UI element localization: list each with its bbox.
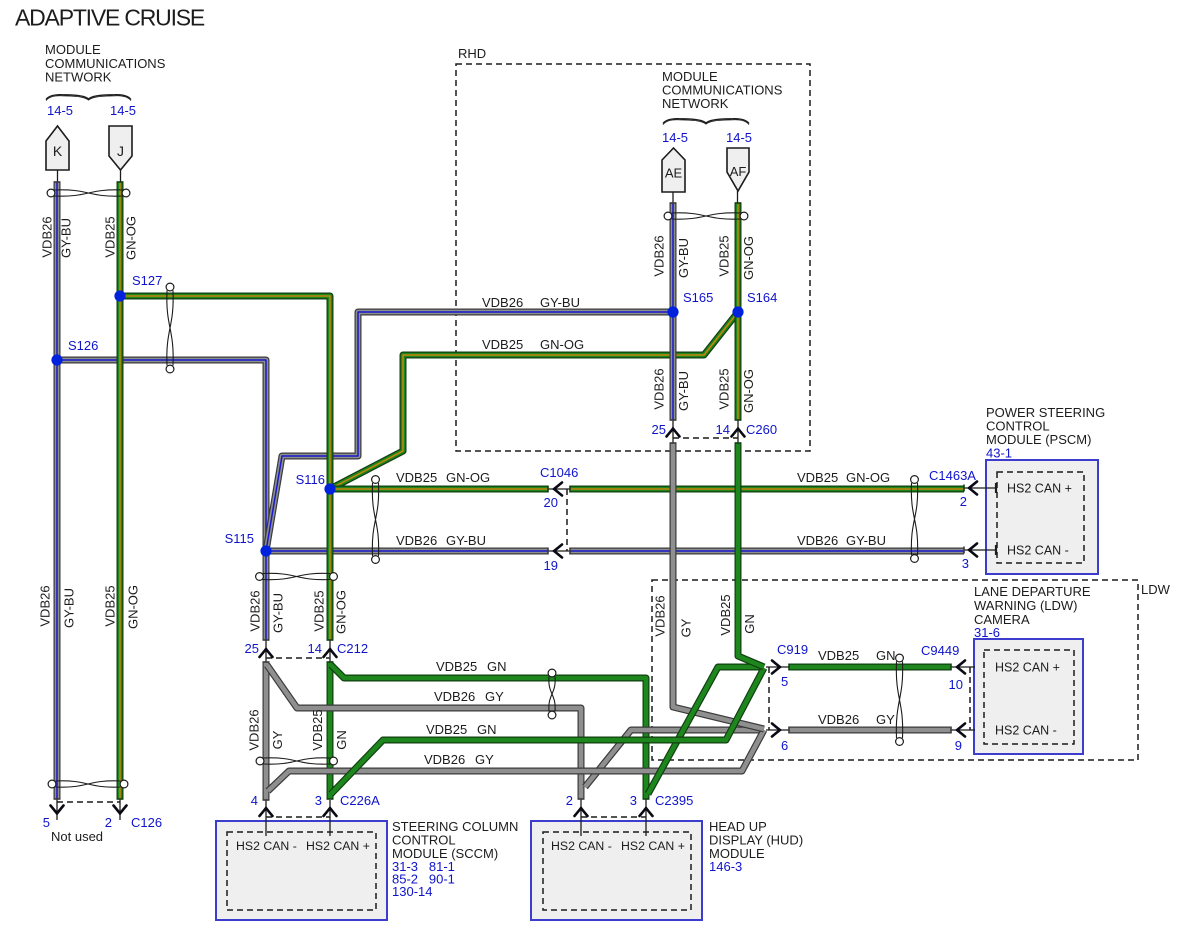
svg-text:GN: GN	[487, 659, 507, 674]
svg-text:HS2 CAN +: HS2 CAN +	[995, 661, 1060, 675]
svg-text:VDB25: VDB25	[482, 337, 523, 352]
svg-text:VDB25: VDB25	[797, 470, 838, 485]
svg-text:VDB25: VDB25	[396, 470, 437, 485]
svg-text:C1046: C1046	[540, 465, 578, 480]
svg-text:WARNING (LDW): WARNING (LDW)	[974, 598, 1078, 613]
svg-text:GN-OG: GN-OG	[540, 337, 584, 352]
svg-text:LANE DEPARTURE: LANE DEPARTURE	[974, 584, 1091, 599]
svg-text:K: K	[53, 143, 63, 159]
svg-text:VDB25: VDB25	[718, 594, 733, 635]
svg-text:GN-OG: GN-OG	[846, 470, 890, 485]
svg-text:AE: AE	[665, 166, 683, 181]
svg-text:VDB25: VDB25	[717, 235, 732, 276]
svg-text:HS2 CAN +: HS2 CAN +	[306, 839, 370, 853]
svg-text:VDB26: VDB26	[434, 689, 475, 704]
svg-text:VDB26: VDB26	[652, 235, 667, 276]
svg-text:GN: GN	[742, 614, 757, 634]
svg-text:HS2 CAN -: HS2 CAN -	[551, 839, 612, 853]
svg-text:10: 10	[949, 677, 963, 692]
svg-text:VDB26: VDB26	[482, 295, 523, 310]
svg-text:146-3: 146-3	[709, 859, 742, 874]
svg-text:2: 2	[566, 793, 573, 808]
svg-text:VDB25: VDB25	[310, 709, 325, 750]
svg-text:VDB25: VDB25	[103, 585, 118, 626]
svg-text:GN-OG: GN-OG	[126, 585, 141, 629]
svg-text:GN: GN	[334, 730, 349, 750]
svg-text:GY: GY	[475, 752, 494, 767]
svg-text:14-5: 14-5	[662, 130, 688, 145]
svg-text:S165: S165	[683, 290, 713, 305]
svg-text:14-5: 14-5	[726, 130, 752, 145]
svg-text:GN: GN	[477, 722, 497, 737]
svg-text:VDB26: VDB26	[247, 709, 262, 750]
svg-text:GY-BU: GY-BU	[846, 533, 886, 548]
svg-text:14: 14	[308, 641, 322, 656]
svg-text:HS2 CAN -: HS2 CAN -	[236, 839, 297, 853]
svg-text:VDB26: VDB26	[653, 595, 668, 636]
svg-text:GY-BU: GY-BU	[676, 238, 691, 278]
svg-text:C212: C212	[337, 641, 368, 656]
svg-text:ADAPTIVE CRUISE: ADAPTIVE CRUISE	[15, 5, 205, 31]
svg-text:S116: S116	[296, 472, 325, 487]
svg-text:RHD: RHD	[458, 46, 486, 61]
svg-text:GY: GY	[270, 730, 285, 749]
svg-text:2: 2	[960, 494, 967, 509]
svg-text:HS2 CAN +: HS2 CAN +	[1007, 482, 1072, 496]
svg-text:VDB26: VDB26	[652, 368, 667, 409]
svg-text:14: 14	[716, 422, 730, 437]
svg-text:25: 25	[245, 641, 259, 656]
svg-text:HS2 CAN -: HS2 CAN -	[995, 724, 1057, 738]
svg-text:C2395: C2395	[655, 793, 693, 808]
svg-text:2: 2	[105, 815, 112, 830]
svg-text:14-5: 14-5	[47, 103, 73, 118]
svg-text:5: 5	[781, 674, 788, 689]
svg-text:S115: S115	[225, 531, 254, 546]
svg-text:GN-OG: GN-OG	[334, 590, 349, 634]
svg-text:25: 25	[652, 422, 666, 437]
svg-text:VDB25: VDB25	[426, 722, 467, 737]
svg-text:VDB26: VDB26	[797, 533, 838, 548]
svg-text:HS2 CAN -: HS2 CAN -	[1007, 544, 1069, 558]
svg-text:GY: GY	[485, 689, 504, 704]
svg-text:GY-BU: GY-BU	[540, 295, 580, 310]
svg-text:GY-BU: GY-BU	[676, 371, 691, 411]
svg-text:20: 20	[544, 495, 558, 510]
svg-text:VDB26: VDB26	[424, 752, 465, 767]
svg-text:6: 6	[781, 738, 788, 753]
svg-text:VDB26: VDB26	[818, 712, 859, 727]
svg-text:GN-OG: GN-OG	[741, 236, 756, 280]
svg-text:S126: S126	[68, 338, 98, 353]
svg-text:31-6: 31-6	[974, 625, 1000, 640]
svg-text:VDB25: VDB25	[717, 368, 732, 409]
svg-text:VDB25: VDB25	[818, 648, 859, 663]
svg-text:S164: S164	[747, 290, 777, 305]
svg-text:LDW: LDW	[1141, 582, 1171, 597]
svg-text:GN: GN	[876, 648, 896, 663]
svg-text:3: 3	[962, 556, 969, 571]
svg-text:GY: GY	[679, 618, 694, 637]
svg-text:19: 19	[544, 558, 558, 573]
svg-text:NETWORK: NETWORK	[45, 70, 112, 85]
svg-text:C126: C126	[131, 815, 162, 830]
svg-text:43-1: 43-1	[986, 446, 1012, 461]
svg-text:GN-OG: GN-OG	[446, 470, 490, 485]
svg-text:VDB26: VDB26	[40, 216, 55, 257]
svg-text:9: 9	[955, 738, 962, 753]
svg-text:GY-BU: GY-BU	[271, 593, 286, 633]
svg-text:C9449: C9449	[921, 643, 959, 658]
svg-text:130-14: 130-14	[392, 884, 432, 899]
svg-text:14-5: 14-5	[110, 103, 136, 118]
svg-text:VDB26: VDB26	[396, 533, 437, 548]
svg-text:Not used: Not used	[51, 829, 103, 844]
svg-text:S127: S127	[132, 273, 162, 288]
svg-text:NETWORK: NETWORK	[662, 96, 729, 111]
svg-text:GY-BU: GY-BU	[59, 218, 74, 258]
svg-text:VDB26: VDB26	[38, 585, 53, 626]
svg-text:VDB26: VDB26	[248, 590, 263, 631]
svg-text:AF: AF	[730, 164, 747, 179]
svg-text:4: 4	[251, 793, 258, 808]
svg-text:GY-BU: GY-BU	[62, 588, 77, 628]
svg-text:C1463A: C1463A	[929, 468, 976, 483]
svg-text:VDB25: VDB25	[436, 659, 477, 674]
svg-text:C919: C919	[777, 642, 808, 657]
svg-text:HS2 CAN +: HS2 CAN +	[621, 839, 685, 853]
svg-text:GY-BU: GY-BU	[446, 533, 486, 548]
svg-text:3: 3	[315, 793, 322, 808]
svg-text:GY: GY	[876, 712, 895, 727]
svg-text:C260: C260	[746, 422, 777, 437]
svg-text:C226A: C226A	[340, 793, 380, 808]
svg-text:MODULE: MODULE	[45, 42, 101, 57]
svg-text:VDB25: VDB25	[103, 216, 118, 257]
svg-text:GN-OG: GN-OG	[124, 216, 139, 260]
svg-text:5: 5	[43, 815, 50, 830]
svg-text:3: 3	[630, 793, 637, 808]
svg-text:GN-OG: GN-OG	[741, 369, 756, 413]
svg-text:J: J	[117, 143, 124, 159]
svg-text:VDB25: VDB25	[312, 590, 327, 631]
